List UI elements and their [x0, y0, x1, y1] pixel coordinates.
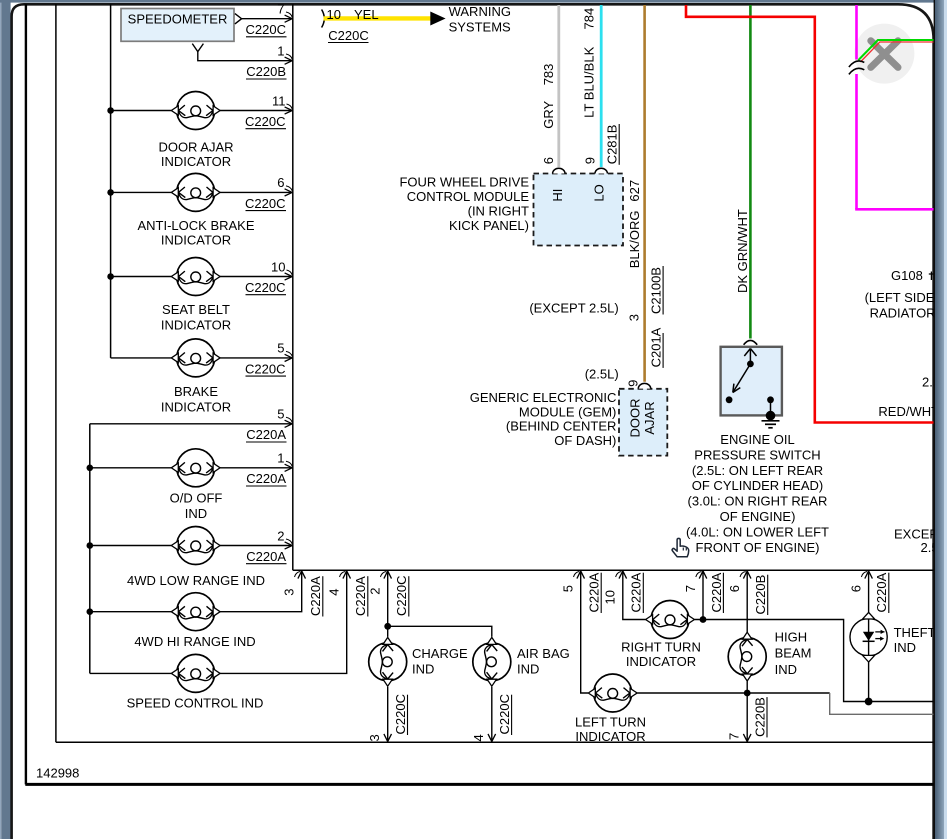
anti-lock brake indicator label	[137, 218, 254, 248]
svg-text:GENERIC ELECTRONIC: GENERIC ELECTRONIC	[470, 390, 617, 405]
svg-text:IND: IND	[775, 662, 797, 677]
speedometer SPEEDOMETER	[121, 9, 234, 42]
wire anti-lock row	[107, 189, 291, 196]
svg-text:2: 2	[368, 588, 383, 595]
pin 6T label	[848, 572, 867, 593]
svg-text:(EXCEPT 2.5L): (EXCEPT 2.5L)	[529, 301, 618, 316]
ground (engine oil pressure switch)	[762, 421, 780, 428]
G108 location label	[865, 290, 947, 320]
svg-text:C220A: C220A	[629, 572, 644, 612]
svg-text:BEAM: BEAM	[775, 646, 812, 661]
note EXCEPT 2.5L (bottom right)	[894, 527, 946, 556]
svg-text:LT BLU/BLK: LT BLU/BLK	[582, 46, 597, 117]
pin 10 label	[271, 259, 292, 275]
pin 5 label	[277, 341, 292, 357]
wire LT GRN (top right)	[858, 40, 933, 60]
svg-text:(2.5L: ON LEFT REAR: (2.5L: ON LEFT REAR	[692, 463, 823, 478]
svg-text:C220C: C220C	[497, 694, 512, 734]
svg-text:BRAKE: BRAKE	[174, 384, 218, 399]
svg-text:SPEEDOMETER: SPEEDOMETER	[128, 12, 228, 27]
speedometer output pin chevron	[235, 14, 242, 24]
svg-text:9: 9	[626, 380, 641, 387]
instrument cluster pin bus (horizontal)	[293, 569, 934, 571]
pin 10R label	[603, 572, 622, 605]
pin arrow 5b	[285, 420, 293, 427]
wire theft ind stub (pin 6 C220A)	[868, 572, 870, 613]
connector C220C (pin 6)	[245, 196, 286, 211]
instrument cluster box bottom edge	[56, 741, 934, 743]
anti-lock brake indicator lamp	[171, 173, 220, 211]
svg-text:FRONT OF ENGINE): FRONT OF ENGINE)	[696, 540, 820, 555]
svg-text:(BEHIND CENTER: (BEHIND CENTER	[506, 419, 617, 434]
svg-text:INDICATOR: INDICATOR	[161, 154, 231, 169]
svg-text:O/D OFF: O/D OFF	[170, 491, 223, 506]
wire charge ind bottom (pin 3 C220C)	[387, 687, 389, 741]
svg-text:C220A: C220A	[353, 576, 368, 616]
pin arrow 5	[285, 354, 293, 361]
svg-text:HIGH: HIGH	[775, 629, 808, 644]
svg-text:C2100B: C2100B	[649, 267, 664, 314]
svg-text:4WD LOW RANGE IND: 4WD LOW RANGE IND	[127, 573, 265, 588]
wire GRY 783	[557, 5, 560, 167]
pin 11 label	[272, 93, 292, 109]
bus arrow 7R	[699, 571, 707, 579]
wire charge-to-airbag jumper	[388, 626, 492, 637]
connector C201A	[649, 327, 664, 368]
svg-text:9: 9	[583, 157, 598, 164]
wire group top row pin 5	[90, 423, 291, 425]
svg-text:ENGINE OIL: ENGINE OIL	[720, 432, 794, 447]
svg-text:C220A: C220A	[709, 572, 724, 612]
svg-text:C220A: C220A	[587, 572, 602, 612]
svg-text:RED/WHT: RED/WHT	[878, 404, 939, 419]
bottom arrow 7H	[743, 734, 751, 742]
svg-text:C220A: C220A	[246, 549, 286, 564]
svg-text:OF ENGINE): OF ENGINE)	[720, 509, 796, 524]
svg-text:C220B: C220B	[752, 697, 767, 737]
wire 4WD low row	[87, 542, 292, 549]
svg-text:10: 10	[327, 7, 341, 22]
bottom arrow 4c	[488, 734, 496, 742]
wire step down to edge (gray)	[830, 693, 934, 714]
svg-text:C220A: C220A	[246, 471, 286, 486]
svg-text:DOOR AJAR: DOOR AJAR	[158, 140, 233, 155]
connector C220A (stub 10R)	[629, 572, 644, 613]
wire left turn stub (pin 5 C220A)	[581, 572, 588, 693]
svg-text:C220A: C220A	[874, 572, 889, 612]
schematic frame left border	[25, 4, 27, 784]
svg-text:(4.0L: ON LOWER LEFT: (4.0L: ON LOWER LEFT	[686, 524, 829, 539]
pin arrow 10	[285, 273, 293, 280]
svg-text:YEL: YEL	[354, 7, 379, 22]
svg-text:DOOR: DOOR	[628, 399, 643, 438]
svg-text:C220A: C220A	[308, 576, 323, 616]
pin 6 label	[277, 175, 292, 191]
svg-text:OF CYLINDER HEAD): OF CYLINDER HEAD)	[692, 478, 823, 493]
svg-text:(IN RIGHT: (IN RIGHT	[468, 204, 529, 219]
svg-text:IND: IND	[185, 506, 207, 521]
svg-text:783: 783	[541, 64, 556, 86]
pin arrow 2	[285, 542, 293, 549]
wire right turn output (pin 7 C220A)	[695, 572, 934, 702]
wire RED thin (top right)	[860, 42, 933, 62]
svg-text:INDICATOR: INDICATOR	[161, 232, 231, 247]
connector C220A (stub 7R)	[709, 572, 724, 613]
pin 7R label	[683, 572, 702, 593]
bus arrow 6T	[865, 571, 873, 579]
svg-text:5: 5	[277, 407, 284, 422]
svg-text:2: 2	[277, 528, 284, 543]
connector C220A (pin 5b)	[246, 427, 287, 442]
svg-text:AIR BAG: AIR BAG	[517, 646, 570, 661]
four wheel drive control module U1	[534, 168, 624, 245]
connector C220C (bottom 4c)	[497, 694, 512, 735]
bus arrow 2c	[384, 571, 392, 579]
svg-text:1: 1	[277, 44, 284, 59]
svg-text:(2.5L): (2.5L)	[585, 367, 619, 382]
connector C220A (pin 1b)	[246, 471, 287, 486]
pin 2 label	[277, 528, 292, 544]
wire 4WD hi row	[87, 572, 302, 615]
pin 1b label	[277, 451, 292, 467]
svg-text:AJAR: AJAR	[642, 401, 657, 434]
svg-text:5: 5	[277, 341, 284, 356]
svg-text:C220C: C220C	[328, 28, 368, 43]
svg-text:7: 7	[726, 733, 741, 740]
instrument cluster box left edge	[55, 4, 57, 742]
svg-text:C220C: C220C	[246, 22, 286, 37]
connector C220A (stub 5L)	[587, 572, 602, 613]
wire speed control row	[90, 572, 347, 673]
svg-text:INDICATOR: INDICATOR	[161, 399, 231, 414]
pin 7 label	[277, 1, 292, 17]
svg-text:4: 4	[327, 589, 342, 596]
seat belt indicator label	[161, 302, 231, 333]
wire YEL 10 to warning systems	[324, 16, 432, 20]
connector C220C (pin 10)	[245, 280, 286, 295]
bus arrow 3	[298, 571, 306, 579]
connector C2100B	[649, 266, 664, 315]
wire speedometer pin 1	[198, 52, 291, 61]
wire theft ind to junction	[865, 662, 873, 705]
svg-text:C220C: C220C	[245, 280, 285, 295]
svg-text:C220C: C220C	[245, 114, 285, 129]
connector C220B (bottom 7H)	[752, 697, 767, 737]
charge indicator lamp	[369, 637, 407, 686]
svg-text:IND: IND	[412, 661, 434, 676]
svg-text:7: 7	[277, 1, 284, 16]
svg-text:7: 7	[683, 585, 698, 592]
svg-text:FOUR WHEEL DRIVE: FOUR WHEEL DRIVE	[399, 174, 529, 189]
high beam indicator lamp	[728, 632, 766, 681]
wire left turn to high beam junction	[637, 690, 830, 697]
right turn indicator lamp	[646, 601, 695, 639]
svg-text:C220C: C220C	[393, 694, 408, 734]
wire O/D off row	[87, 465, 292, 472]
engine oil pressure switch label	[686, 432, 829, 555]
svg-text:IND: IND	[517, 661, 539, 676]
svg-text:C220A: C220A	[246, 427, 286, 442]
brake indicator lamp	[171, 339, 220, 377]
svg-text:PRESSURE SWITCH: PRESSURE SWITCH	[694, 447, 820, 462]
svg-text:GRY: GRY	[541, 100, 556, 128]
four wheel drive control module label	[399, 174, 529, 233]
wire high beam stub (pin 6 C220B)	[746, 572, 748, 632]
pin arrow 6	[285, 189, 293, 196]
seat belt indicator lamp	[171, 258, 220, 296]
svg-text:(3.0L: ON RIGHT REAR: (3.0L: ON RIGHT REAR	[688, 494, 828, 509]
connector C220A (stub 3)	[308, 576, 323, 617]
svg-text:INDICATOR: INDICATOR	[161, 317, 231, 332]
bus arrow 10R	[619, 571, 627, 579]
left feed bus wire	[110, 4, 112, 358]
pin 5b label	[277, 407, 292, 423]
svg-text:4WD HI RANGE IND: 4WD HI RANGE IND	[134, 634, 255, 649]
svg-text:3: 3	[367, 734, 382, 741]
generic electronic module GEM	[619, 383, 667, 455]
svg-text:6: 6	[848, 585, 863, 592]
generic electronic module label	[470, 390, 617, 448]
svg-text:5: 5	[561, 585, 576, 592]
svg-text:C220B: C220B	[753, 575, 768, 615]
pin 4 label	[327, 572, 346, 596]
wire seat belt row	[107, 273, 291, 280]
svg-text:10: 10	[271, 259, 285, 274]
right window edge bar	[934, 0, 947, 839]
wire door ajar row	[107, 107, 291, 114]
svg-text:WARNING: WARNING	[449, 4, 511, 19]
svg-text:HI: HI	[550, 189, 565, 202]
right turn indicator label	[621, 639, 701, 669]
warning systems label	[449, 4, 511, 34]
svg-text:INDICATOR: INDICATOR	[575, 729, 645, 744]
instrument cluster inner vertical edge	[292, 4, 294, 570]
4WD low range indicator lamp	[171, 527, 220, 565]
svg-text:RIGHT TURN: RIGHT TURN	[621, 639, 701, 654]
pin 1 label	[277, 44, 292, 60]
schematic frame bottom border	[25, 783, 935, 786]
bus arrow 4	[343, 571, 351, 579]
svg-text:1: 1	[277, 451, 284, 466]
svg-text:CONTROL MODULE: CONTROL MODULE	[407, 189, 530, 204]
left turn indicator lamp	[588, 674, 637, 712]
wire right turn stub (pin 10 C220A)	[623, 572, 646, 620]
O/D off indicator lamp	[171, 449, 220, 487]
engine oil pressure switch S1	[721, 340, 782, 420]
svg-text:THEFT: THEFT	[894, 625, 936, 640]
pin 6H label	[727, 572, 746, 593]
svg-text:DK GRN/WHT: DK GRN/WHT	[735, 209, 750, 293]
svg-text:OF DASH): OF DASH)	[554, 433, 616, 448]
svg-text:784: 784	[582, 8, 597, 30]
pin arrow 7	[285, 15, 293, 22]
O/D off label	[170, 491, 223, 521]
svg-text:C281B: C281B	[605, 125, 620, 165]
door ajar indicator lamp	[171, 92, 220, 130]
wire DK GRN/WHT	[749, 5, 752, 339]
ground symbol (cut at edge)	[929, 272, 934, 281]
mouse cursor	[672, 538, 689, 556]
bus arrow 6H	[743, 571, 751, 579]
wire air bag bottom (pin 4 C220C)	[491, 687, 493, 741]
svg-text:C220B: C220B	[246, 64, 286, 79]
wire RED/WHT	[686, 5, 934, 423]
wire high beam bottom (pin 7 C220B)	[746, 681, 748, 741]
pin arrow 11	[285, 107, 293, 114]
svg-text:CHARGE: CHARGE	[412, 646, 468, 661]
svg-text:3: 3	[626, 314, 641, 321]
4WD hi range indicator lamp	[171, 593, 220, 631]
wire break symbol (off-page)	[849, 61, 864, 74]
svg-text:MODULE (GEM): MODULE (GEM)	[519, 404, 617, 419]
pin 2c label	[368, 572, 387, 595]
svg-text:LO: LO	[592, 184, 607, 201]
pin arrow 1	[285, 57, 293, 64]
connector C220C (pin 5)	[245, 361, 286, 376]
connector C220A (stub 6T)	[874, 572, 889, 613]
connector chevron (yellow wire source)	[322, 10, 325, 28]
svg-text:6: 6	[541, 157, 556, 164]
connector C220B (stub 6H)	[753, 575, 768, 615]
lower group feed bus wire	[89, 424, 91, 674]
connector C220C (stub 2c)	[394, 576, 409, 617]
charge ind label	[412, 646, 468, 677]
connector C220C (bottom 3c)	[393, 694, 408, 735]
svg-text:G108: G108	[891, 268, 923, 283]
connector C220B (pin 1)	[246, 64, 287, 79]
svg-text:6: 6	[727, 585, 742, 592]
svg-text:C220C: C220C	[245, 361, 285, 376]
svg-text:SEAT BELT: SEAT BELT	[162, 302, 230, 317]
svg-text:627: 627	[627, 180, 642, 202]
svg-text:6: 6	[277, 175, 284, 190]
door ajar indicator label	[158, 140, 233, 170]
speedometer lower connector fork	[192, 44, 203, 52]
svg-text:11: 11	[272, 93, 286, 108]
svg-text:C201A: C201A	[649, 327, 664, 367]
high beam ind label	[775, 629, 812, 676]
air bag indicator lamp	[473, 637, 511, 686]
speed control indicator lamp	[171, 654, 220, 692]
svg-text:ANTI-LOCK BRAKE: ANTI-LOCK BRAKE	[137, 218, 254, 233]
wire BLK/ORG 627	[643, 5, 646, 382]
brake indicator label	[161, 384, 231, 415]
svg-text:10: 10	[603, 590, 618, 604]
wire speedometer pin 7	[242, 18, 292, 20]
theft indicator LED lamp	[850, 612, 887, 662]
svg-text:4: 4	[471, 734, 486, 741]
connector C220C (pin 11)	[245, 114, 286, 129]
wire charge ind stub (pin 2 C220C)	[384, 572, 391, 637]
connector C220A (stub 4)	[353, 576, 368, 617]
wire brake row	[111, 357, 292, 359]
svg-text:3: 3	[282, 589, 297, 596]
pin 3 label	[282, 572, 301, 596]
theft ind label	[894, 625, 936, 655]
svg-text:INDICATOR: INDICATOR	[626, 654, 696, 669]
left turn indicator label	[575, 714, 646, 744]
bus arrow 5L	[577, 571, 585, 579]
svg-text:C220C: C220C	[394, 576, 409, 616]
svg-text:SPEED CONTROL IND: SPEED CONTROL IND	[127, 695, 264, 710]
connector C220A (pin 2)	[246, 549, 287, 564]
svg-text:KICK PANEL): KICK PANEL)	[449, 218, 529, 233]
air bag ind label	[517, 646, 570, 677]
bottom arrow 3c	[384, 734, 392, 742]
close button (X)	[854, 24, 914, 84]
connector C220C (yellow wire)	[328, 28, 369, 43]
svg-text:LEFT TURN: LEFT TURN	[575, 714, 646, 729]
pin 5L label	[561, 572, 580, 593]
svg-text:BLK/ORG: BLK/ORG	[627, 211, 642, 269]
connector C220C (pin 7)	[246, 22, 287, 37]
svg-text:142998: 142998	[36, 766, 79, 781]
arrow to warning systems	[430, 12, 445, 26]
pin arrow 1b	[285, 464, 293, 471]
wire PNK	[855, 5, 933, 209]
connector C281B	[605, 124, 620, 165]
wire LT BLU/BLK 784	[600, 5, 603, 167]
svg-text:C220C: C220C	[245, 196, 285, 211]
svg-text:IND: IND	[894, 640, 916, 655]
svg-text:SYSTEMS: SYSTEMS	[449, 20, 511, 35]
